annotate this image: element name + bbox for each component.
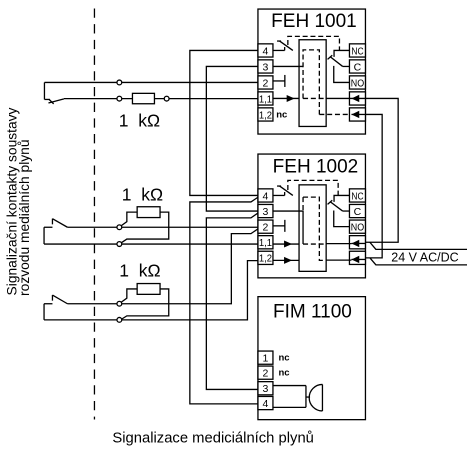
- svg-text:24 V AC/DC: 24 V AC/DC: [391, 250, 458, 264]
- U2 terminal 3 internal wire: [273, 211, 303, 244]
- U1 terminal C: [349, 60, 365, 73]
- svg-text:2: 2: [263, 77, 269, 89]
- U2 arrow right on 1,2 wire: [284, 257, 292, 264]
- svg-text:1 kΩ: 1 kΩ: [119, 260, 160, 280]
- U1 terminal 4: [258, 44, 273, 58]
- U2 terminal box supply 2: [349, 251, 365, 264]
- wire: FEH1001 terminal 4 to FEH1002 terminal 4: [190, 50, 258, 195]
- U1 mechanical linkage (dashed): [288, 36, 340, 51]
- U2 terminal box supply 1: [349, 236, 365, 249]
- svg-text:1,1: 1,1: [259, 93, 272, 105]
- svg-text:2: 2: [263, 368, 269, 380]
- U3 wire terminal 3 to buzzer: [273, 385, 306, 387]
- U2 terminal 3: [258, 204, 273, 218]
- wire: S2 upper to FEH1002 terminal 2: [67, 226, 258, 228]
- U2 terminal NC: [349, 189, 365, 203]
- module U1: FEH 1001 box: [258, 9, 366, 134]
- svg-text:4: 4: [263, 398, 269, 410]
- svg-text:1: 1: [263, 353, 269, 365]
- U1 plunger symbol at terminal 2: [273, 75, 285, 87]
- U1 coil path left leg (dashed): [303, 50, 319, 115]
- resistor R1: [132, 93, 154, 103]
- U2 terminal 1,2: [258, 251, 273, 265]
- U2 wire terminal 1,1 to relay edge: [273, 243, 299, 245]
- wire: FEH1002 terminal 3 to FIM1100 terminal 3: [206, 213, 258, 389]
- svg-text:1,2: 1,2: [259, 253, 272, 265]
- wire: S2 lower to FEH1002 terminal 1,1: [44, 243, 258, 245]
- U2 terminal NO: [349, 220, 365, 234]
- switch contact S2 (group 2): [44, 219, 67, 244]
- svg-text:rozvodu mediálních plynů: rozvodu mediálních plynů: [17, 139, 32, 295]
- svg-text:1,2: 1,2: [259, 109, 272, 121]
- U1 terminal NC: [349, 44, 365, 58]
- U3 terminal 4: [258, 396, 273, 410]
- U3 terminal 2: [258, 366, 273, 380]
- U1 wire C contact: [343, 65, 350, 67]
- wire: FEH1001 terminal 3 to FEH1002 terminal 3: [206, 66, 258, 211]
- U2 wire C contact: [343, 210, 350, 212]
- svg-text:NO: NO: [351, 77, 364, 89]
- wire: U1 supply2 to U2 supply2: [365, 114, 382, 257]
- U1 coil to supply 2 (dashed): [319, 113, 349, 115]
- U1 input switch at terminal 4: [273, 41, 293, 50]
- svg-text:C: C: [354, 206, 362, 218]
- U1 terminal 1,2: [258, 108, 273, 122]
- node circle group1 after R1: [164, 96, 169, 101]
- U1 terminal 3 internal wire: [273, 65, 303, 67]
- U2 wire terminal 1,2 to relay edge: [273, 259, 299, 261]
- node circle group3 upper: [117, 301, 122, 306]
- resistor R3: [137, 284, 160, 295]
- U3 terminal 3: [258, 382, 273, 396]
- U2 relay contact NC side: [334, 195, 349, 201]
- U1 terminal 3: [258, 60, 273, 73]
- U1 terminal box supply 1: [349, 92, 365, 105]
- resistor R3 branch left: [121, 289, 137, 302]
- svg-text:1 kΩ: 1 kΩ: [122, 184, 163, 204]
- U1 terminal 1,1: [258, 92, 273, 106]
- wire: S3 upper to FEH1002 terminal 2 (jogged): [67, 229, 258, 304]
- U2 terminal 4: [258, 189, 273, 203]
- wire: 24V feed line 2: [370, 258, 467, 265]
- dashed boundary line: [93, 8, 95, 419]
- U2 dashed along 1,1 row: [303, 243, 326, 245]
- svg-text:NO: NO: [351, 222, 364, 234]
- wire: U1 supply1 to U2 supply1: [365, 98, 398, 242]
- svg-text:FIM 1100: FIM 1100: [273, 302, 352, 323]
- U1 relay contact blade: [328, 55, 343, 66]
- U1 relay contact NO side: [334, 66, 350, 83]
- svg-text:3: 3: [263, 383, 269, 395]
- U1 arrow left in supply box 2: [351, 111, 359, 118]
- svg-text:nc: nc: [276, 110, 287, 121]
- U2 terminal C: [349, 204, 365, 218]
- buzzer LS1: [306, 384, 323, 411]
- svg-text:1 kΩ: 1 kΩ: [119, 110, 160, 130]
- U2 supply 1 shaft: [351, 242, 365, 244]
- U2 plunger symbol at terminal 2: [273, 220, 285, 232]
- U1 coil dashed along 1,1 row: [303, 97, 326, 99]
- svg-text:3: 3: [263, 206, 269, 218]
- U1 relay body: [299, 40, 326, 127]
- switch contact S1 (group 1): [44, 82, 64, 103]
- module U2: FEH 1002 box: [258, 154, 366, 278]
- node circle group1 lower: [117, 96, 122, 101]
- U1 relay contact NC side: [334, 50, 349, 56]
- svg-text:nc: nc: [278, 352, 289, 363]
- U2 terminal 1,1: [258, 236, 273, 250]
- svg-text:NC: NC: [351, 45, 364, 57]
- U2 arrow right on 1,1 wire: [284, 241, 292, 248]
- U3 wire terminal 4 to buzzer: [273, 406, 306, 408]
- resistor R2: [137, 207, 160, 218]
- U1 arrow right on 1,1 wire: [287, 95, 295, 102]
- U1 wire relay edge to supply terminal 1: [326, 97, 365, 99]
- svg-text:Signalizace mediciálních plynů: Signalizace mediciálních plynů: [112, 430, 314, 446]
- U2 input switch at terminal 4: [273, 186, 293, 195]
- resistor R2 branch right: [121, 212, 168, 243]
- U3 terminal 1: [258, 351, 273, 365]
- U2 mechanical linkage (dashed): [288, 180, 338, 196]
- U2 relay contact blade: [328, 200, 343, 211]
- U2 wire relay edge to supply terminal 1: [326, 243, 351, 245]
- U2 supply 2 shaft: [351, 258, 365, 260]
- node circle group2 upper: [117, 225, 122, 230]
- U1 arrow left in supply box 1: [351, 95, 359, 102]
- U2 relay body: [299, 185, 326, 272]
- wire: 24V feed line 1: [370, 242, 467, 249]
- wire: S1 upper to FEH1001 terminal 2: [44, 81, 258, 83]
- resistor R2 branch left: [121, 212, 137, 226]
- U2 wire relay edge to supply terminal 2: [326, 259, 351, 261]
- node circle group2 lower: [117, 242, 122, 247]
- svg-text:FEH 1002: FEH 1002: [273, 156, 359, 177]
- wire: S3 lower to FEH1002 terminal 1,2: [44, 261, 258, 320]
- resistor R3 branch right: [121, 289, 168, 319]
- svg-text:NC: NC: [351, 190, 364, 202]
- U2 coil path (dashed): [303, 197, 326, 260]
- U1 supply 2 shaft: [351, 113, 365, 115]
- svg-text:C: C: [354, 61, 362, 73]
- U2 coil left leg (dashed): [302, 197, 304, 211]
- U2 arrow left in supply box 1: [351, 240, 359, 247]
- vertical label: Signalizační kontakty soustavy rozvodu mediálních plynů: [4, 107, 32, 295]
- U1 terminal NO: [349, 76, 365, 90]
- svg-text:4: 4: [263, 45, 269, 57]
- svg-text:4: 4: [263, 190, 269, 202]
- svg-text:2: 2: [263, 222, 269, 234]
- U2 relay contact NO side: [334, 210, 350, 226]
- U1 terminal box supply 2: [349, 108, 365, 121]
- svg-text:1,1: 1,1: [259, 237, 272, 249]
- U1 terminal 2: [258, 76, 273, 90]
- node circle group1 upper: [117, 80, 122, 85]
- svg-text:3: 3: [263, 61, 269, 73]
- wire: S1 lower to resistor R1: [64, 98, 133, 100]
- module U3: FIM 1100 box: [258, 297, 366, 420]
- U1 wire terminal 1,1 to relay edge: [273, 97, 299, 99]
- wire: R1 to FEH1001 terminal 1,1: [154, 98, 258, 100]
- svg-text:FEH 1001: FEH 1001: [271, 11, 357, 32]
- wire: FEH1002 terminal 4 to FIM1100 terminal 4: [190, 197, 258, 404]
- node circle group3 lower: [117, 317, 122, 322]
- switch contact S3 (group 3): [44, 295, 67, 320]
- U2 terminal 2: [258, 220, 273, 234]
- svg-text:nc: nc: [278, 368, 289, 379]
- U2 arrow left in supply box 2: [351, 256, 359, 263]
